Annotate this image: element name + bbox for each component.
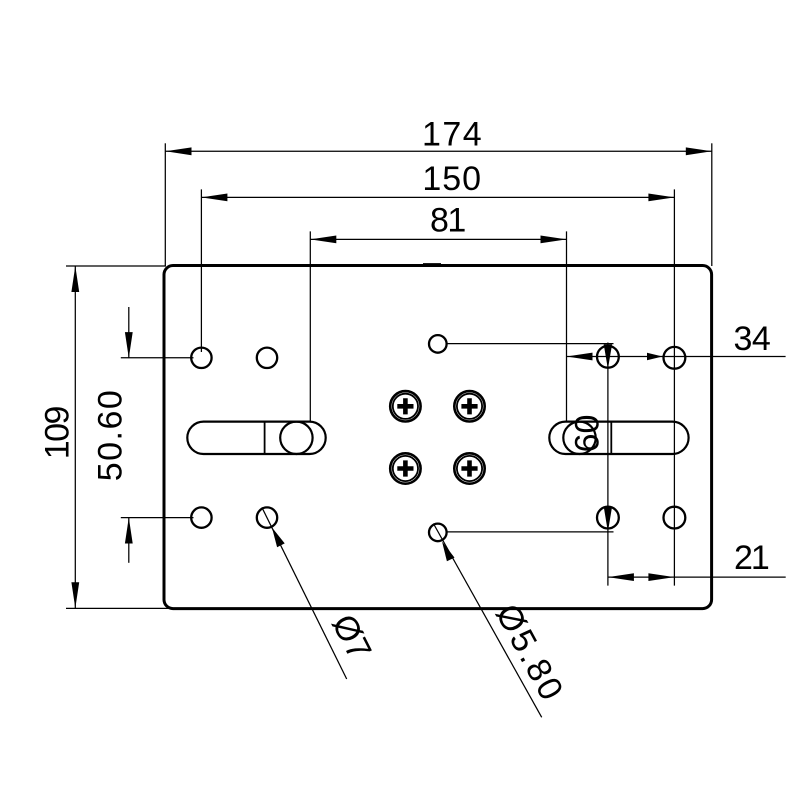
arrow 50.60 top [125,332,133,358]
hole mid bottom (5.80mm) [429,524,447,542]
dim 150 ext left [200,189,202,352]
arrow 174 left [166,147,192,155]
arrowheads [71,147,711,608]
hole col2 row2 (7mm hole) [257,507,277,527]
dim 174 ext left [164,143,166,266]
arrow 34 left [567,353,593,361]
arrow 109 top [71,266,79,292]
arrow 81 left [310,236,336,244]
hole col2 row1 [257,348,277,368]
arrow 34 right [647,353,663,360]
leader dia5.80 [433,524,541,718]
left slot circle [280,422,312,454]
leader dia7 [262,507,347,679]
left slot divider [264,422,266,454]
dim 150 line [201,196,674,198]
svg-text:50.60: 50.60 [91,389,129,482]
dim 174 line [166,150,712,152]
dim 109 ext top [66,265,166,267]
dim 50.60 ext bottom [121,517,194,519]
leader mid-top hole [446,343,614,345]
right slot circle [563,422,595,454]
dim 81/34 ext right [566,231,568,421]
arrow 50.60 bottom [125,518,133,544]
svg-text:109: 109 [39,406,77,459]
svg-text:34: 34 [733,320,770,358]
right slot divider [610,422,612,454]
dimension lines [66,143,786,717]
arrow 21 right [648,573,674,581]
dim 21 line [608,576,786,578]
hole col3 row1 [597,346,619,368]
svg-text:21: 21 [734,539,769,577]
dim 50.60 line top [128,307,130,358]
screw TL [390,391,420,421]
dim 109 line [74,266,76,608]
arrow 60 top [604,344,612,369]
svg-text:150: 150 [422,160,482,198]
plate outline [164,266,712,609]
dim 34 line [567,356,786,358]
arrow 60 bottom [604,507,612,532]
dim 50.60 ext top [121,357,194,359]
dim 174 ext right [711,143,713,266]
arrow dia5.80 [442,541,455,561]
arrow 81 right [541,236,567,244]
dim 81 ext left [309,231,311,422]
hole col1 row1 [191,348,211,368]
arrow dia7 [272,527,285,547]
arrow 150 right [648,194,674,202]
svg-text:60: 60 [568,415,606,453]
screw TR [454,391,484,421]
hole mid top (5.80mm) [429,335,447,353]
screw BR [454,453,484,483]
hole col3 row2 [597,507,619,529]
hole col4 row1 [664,347,686,369]
dim 81 line [310,238,566,240]
hole col1 row2 [191,507,211,527]
arrow 21 left [608,573,634,581]
dim 50.60 line bottom [128,518,130,563]
arrow 174 right [686,147,712,155]
dim 109 ext bottom [66,607,176,609]
screw BL [390,453,420,483]
dim 60 line [607,343,609,586]
arrow 109 bottom [71,582,79,608]
dim 150/21 ext right [673,189,675,585]
svg-text:174: 174 [422,115,483,153]
right slot [549,422,688,454]
svg-text:81: 81 [430,201,465,239]
left slot [187,422,325,454]
arrow 150 left [201,194,227,202]
top edge tick [423,263,441,265]
leader mid-bottom hole [448,531,614,533]
hole col4 row2 [664,507,686,529]
